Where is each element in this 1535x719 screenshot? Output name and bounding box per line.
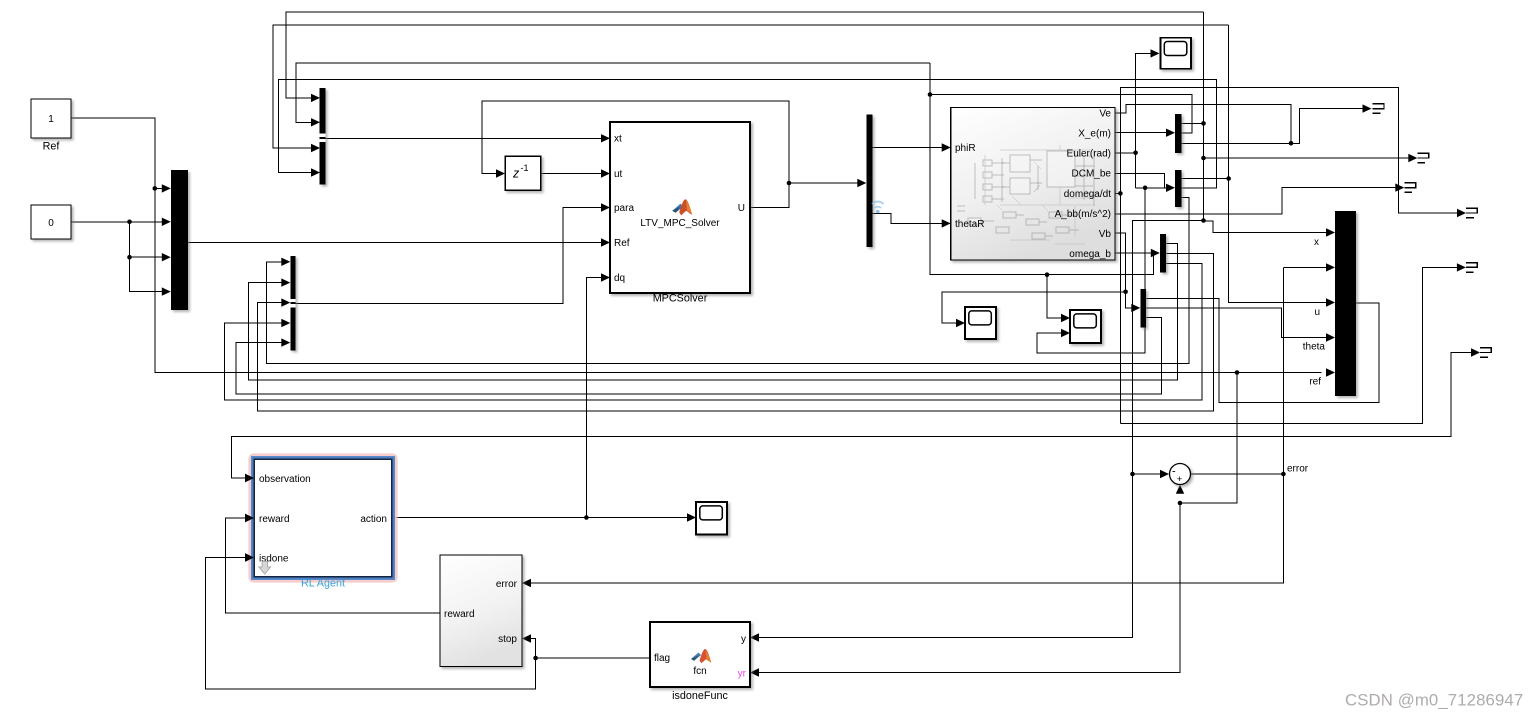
terminator T3: [1404, 183, 1415, 193]
wire U demux out1 to subsystem phiR: [873, 143, 951, 151]
mux small lower with output stripe: [290, 256, 295, 351]
svg-text:x: x: [1314, 237, 1319, 248]
scope block for action signal: [696, 502, 727, 535]
svg-text:Vb: Vb: [1099, 229, 1112, 240]
demux D small right of subsystem: [1160, 234, 1166, 273]
wire flag branch up to stop input of reward block: [522, 634, 536, 658]
terminator T5: [1466, 263, 1477, 273]
wire demuxC out2 to big mux theta input: [1146, 308, 1335, 342]
svg-text:Ve: Ve: [1099, 108, 1111, 119]
wire into demuxB input from scope vertical with branch to scope2 input2: [1037, 184, 1175, 353]
scope block below subsystem single input: [965, 307, 996, 339]
wire domega output joining long vertical net: [1115, 191, 1123, 196]
svg-text:ut: ut: [614, 169, 623, 180]
constant block Ref value 1: [31, 99, 71, 138]
svg-text:error: error: [1287, 464, 1309, 475]
wire DCM_be output jog down into demuxB input: [1115, 173, 1164, 188]
wire small mux2 output to MPCSolver para: [295, 203, 610, 303]
wire sum output error to reward block error input and big mux input2: [522, 263, 1335, 587]
svg-text:fcn: fcn: [693, 666, 706, 677]
wire A_bb output to terminator T3: [1115, 183, 1404, 214]
wire unit delay output to MPCSolver ut: [541, 169, 610, 177]
svg-text:X_e(m): X_e(m): [1078, 129, 1111, 140]
wire U demux out2 to subsystem thetaR: [873, 214, 951, 228]
wire demuxC out3 to feedback line4 and small mux2 input5: [236, 317, 1161, 394]
svg-text:isdoneFunc: isdoneFunc: [672, 690, 728, 702]
svg-text:domega/dt: domega/dt: [1064, 189, 1111, 200]
svg-text:Ref: Ref: [43, 141, 61, 153]
RL Agent block with glow and blue border: [251, 456, 396, 581]
wire X_e output to demuxA input: [1115, 129, 1175, 137]
wire big mux output loop to demuxC out1: [1146, 299, 1379, 403]
svg-text:xt: xt: [614, 134, 622, 145]
svg-text:action: action: [360, 514, 387, 525]
svg-text:thetaR: thetaR: [955, 219, 984, 230]
wire net Ref constant to big mux input1 and ref feedback line: [71, 118, 1335, 377]
arrowheads repainted over RL Agent glow: [245, 474, 254, 482]
wire demuxA out1 branch to big mux x input: [1204, 221, 1336, 237]
svg-text:1: 1: [48, 114, 54, 125]
svg-text:error: error: [496, 579, 518, 590]
constant block value 0: [31, 205, 71, 239]
wire omega_b output to demuxD input: [1115, 249, 1160, 257]
svg-text:-1: -1: [521, 163, 529, 173]
wire isdoneFunc flag output to RL Agent isdone input: [205, 553, 650, 689]
svg-text:MPCSolver: MPCSolver: [653, 293, 708, 305]
svg-text:ref: ref: [1309, 377, 1321, 388]
demux C lower: [1140, 289, 1146, 328]
reward computation block with gradient: [440, 555, 522, 667]
svg-text:flag: flag: [654, 653, 670, 664]
wire demuxB out3 to feedback line1 and small mux2 input1: [266, 198, 1189, 364]
svg-text:A_bb(m/s^2): A_bb(m/s^2): [1055, 209, 1111, 220]
terminator T6: [1480, 348, 1491, 358]
wire net constant 0 to big mux inputs 2 3 4: [71, 218, 171, 296]
svg-text:U: U: [738, 203, 745, 214]
sum block circle with minus plus: [1170, 464, 1191, 486]
svg-text:stop: stop: [498, 634, 517, 645]
svg-text:y: y: [741, 634, 746, 645]
terminator T2: [1417, 153, 1428, 163]
wire big left mux output to MPCSolver Ref port: [188, 238, 610, 246]
wire demuxD out3 to feedback line5 and small mux2 input4: [225, 264, 1202, 400]
svg-text:observation: observation: [259, 474, 311, 485]
svg-text:phiR: phiR: [955, 143, 976, 154]
demux for U signal to phiR thetaR: [866, 115, 872, 247]
unit delay block z-1: [505, 156, 540, 190]
wire demuxA out3 to terminator T1 and top scope: [1115, 104, 1372, 145]
svg-text:reward: reward: [444, 609, 475, 620]
svg-text:DCM_be: DCM_be: [1072, 169, 1112, 180]
svg-text:reward: reward: [259, 514, 290, 525]
MATLAB function block MPCSolver: [610, 122, 750, 293]
MATLAB function block isdoneFunc: [650, 622, 750, 687]
terminator T1: [1373, 104, 1384, 114]
MATLAB logo icon inside MPCSolver: [672, 199, 692, 215]
svg-text:-: -: [1172, 466, 1176, 478]
svg-text:omega_b: omega_b: [1069, 249, 1111, 260]
subsystem block with faded interior image: [951, 108, 1115, 261]
wire demuxA out1 branch to sum minus and isdoneFunc y input: [750, 218, 1206, 642]
faint inner diagram of subsystem: [957, 145, 1095, 244]
wire Euler output joining scope vertical: [1115, 49, 1160, 188]
big output mux right: [1335, 211, 1356, 396]
svg-text:z: z: [512, 166, 520, 180]
wire observation feedback line to RL Agent and terminator T6: [231, 348, 1480, 482]
svg-text:0: 0: [48, 218, 54, 229]
big mux port labels x u theta ref: [1303, 237, 1326, 388]
wire net ref branch down to sum plus input and yr line: [750, 373, 1237, 677]
terminator T4: [1466, 208, 1477, 218]
MATLAB logo icon inside isdoneFunc: [691, 649, 711, 663]
wire top feedback line2 demuxB out1 to small mux input3 and big mux u input: [273, 25, 1335, 307]
svg-text:u: u: [1314, 307, 1320, 318]
wire U feedback to unit delay and demux: [482, 101, 866, 208]
subsystem port labels: [955, 108, 1111, 260]
logging wifi badge on demux output: [872, 202, 884, 214]
svg-text:theta: theta: [1303, 342, 1326, 353]
mux big left: [171, 170, 188, 310]
mux small top with output stripe: [320, 88, 326, 185]
demux B right of subsystem: [1175, 170, 1182, 207]
wire top feedback line1 demuxA out1 to small mux input1: [286, 12, 1206, 221]
wire top feedback line3 demuxA out2 to small mux input2 and scope2 input1: [296, 63, 1192, 322]
wire long vertical net to terminators T4 and T5: [1120, 87, 1466, 423]
wire demuxD out2 to feedback line6 and small mux2 input3: [257, 254, 1213, 411]
svg-text:Euler(rad): Euler(rad): [1067, 149, 1111, 160]
wire RL Agent action to MPCSolver dq and scope: [392, 273, 696, 521]
svg-text:yr: yr: [738, 669, 747, 680]
svg-text:CSDN @m0_71286947: CSDN @m0_71286947: [1345, 691, 1523, 710]
wire top feedback line4 demuxB out2 to small mux input4: [278, 79, 1216, 188]
svg-text:Ref: Ref: [614, 238, 630, 249]
wire small mux top output to MPCSolver xt: [326, 134, 611, 142]
wire demuxA out1 branch to terminator T2 and down branch: [1201, 154, 1417, 162]
wire Vb output to demuxC input and scope1: [942, 233, 1141, 327]
svg-text:LTV_MPC_Solver: LTV_MPC_Solver: [640, 218, 720, 229]
demux A right of subsystem: [1175, 114, 1182, 153]
wire demuxD out1 down to feedback line3 and small mux2 input2: [248, 244, 1177, 380]
scope block with two inputs: [1070, 310, 1101, 343]
svg-text:dq: dq: [614, 273, 625, 284]
svg-text:RL Agent: RL Agent: [301, 578, 345, 590]
wire reward block output to RL Agent reward input: [225, 514, 440, 613]
scope block top right: [1161, 38, 1192, 69]
gray download arrow icon in RL Agent: [259, 561, 271, 574]
svg-text:+: +: [1177, 474, 1183, 485]
svg-text:para: para: [614, 203, 634, 214]
